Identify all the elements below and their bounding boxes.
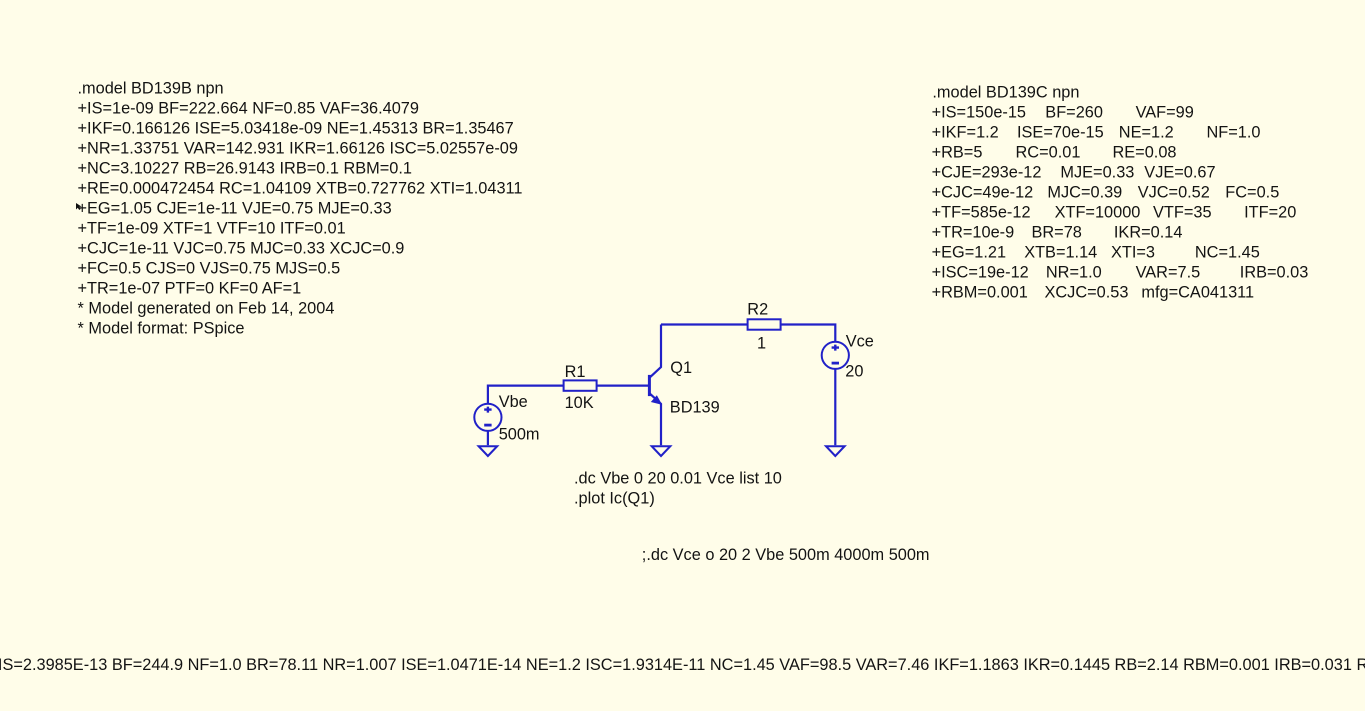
svg-text:+ISC=19e-12: +ISC=19e-12 bbox=[932, 264, 1029, 282]
svg-text:+NR=1.33751 VAR=142.931 IKR=1.: +NR=1.33751 VAR=142.931 IKR=1.66126 ISC=… bbox=[78, 140, 518, 158]
svg-text:10K: 10K bbox=[565, 394, 594, 412]
svg-text:* Model generated on Feb 14, 2: * Model generated on Feb 14, 2004 bbox=[78, 300, 335, 318]
svg-text:+IS=150e-15: +IS=150e-15 bbox=[932, 104, 1026, 122]
svg-text:NR=1.0: NR=1.0 bbox=[1046, 264, 1102, 282]
svg-text:VTF=35: VTF=35 bbox=[1153, 204, 1212, 222]
svg-text:+TF=585e-12: +TF=585e-12 bbox=[932, 204, 1031, 222]
wire: R2 right to Vce top bbox=[781, 325, 836, 342]
svg-text:IKR=0.14: IKR=0.14 bbox=[1114, 224, 1183, 242]
svg-text:20: 20 bbox=[845, 363, 863, 381]
svg-text:500m: 500m bbox=[499, 426, 540, 444]
resistor R1 bbox=[564, 380, 597, 390]
svg-text:NF=1.0: NF=1.0 bbox=[1207, 124, 1261, 142]
voltage source Vbe bbox=[474, 404, 501, 431]
svg-text:MJE=0.33: MJE=0.33 bbox=[1060, 164, 1134, 182]
svg-text:+TR=1e-07 PTF=0 KF=0 AF=1: +TR=1e-07 PTF=0 KF=0 AF=1 bbox=[78, 280, 302, 298]
spice directive .dc/.plot bbox=[574, 469, 782, 507]
svg-text:NE=1.2: NE=1.2 bbox=[1119, 124, 1174, 142]
svg-text:XTI=3: XTI=3 bbox=[1111, 244, 1155, 262]
svg-text:IS=2.3985E-13 BF=244.9 NF=1.0: IS=2.3985E-13 BF=244.9 NF=1.0 BR=78.11 N… bbox=[0, 656, 1365, 674]
svg-text:+FC=0.5 CJS=0 VJS=0.75 MJS=0.5: +FC=0.5 CJS=0 VJS=0.75 MJS=0.5 bbox=[78, 260, 341, 278]
svg-text:+IS=1e-09 BF=222.664 NF=0.85 V: +IS=1e-09 BF=222.664 NF=0.85 VAF=36.4079 bbox=[78, 100, 419, 118]
svg-text:;.dc Vce o 20 2 Vbe 500m 4000m: ;.dc Vce o 20 2 Vbe 500m 4000m 500m bbox=[642, 546, 930, 564]
svg-text:+IKF=1.2: +IKF=1.2 bbox=[932, 124, 999, 142]
svg-text:RC=0.01: RC=0.01 bbox=[1016, 144, 1081, 162]
svg-text:+CJE=293e-12: +CJE=293e-12 bbox=[932, 164, 1042, 182]
wire: Q1 collector to R2 left bbox=[661, 323, 748, 325]
svg-text:+CJC=49e-12: +CJC=49e-12 bbox=[932, 184, 1034, 202]
svg-text:+RE=0.000472454 RC=1.04109 XTB: +RE=0.000472454 RC=1.04109 XTB=0.727762 … bbox=[78, 180, 523, 198]
svg-text:NC=1.45: NC=1.45 bbox=[1195, 244, 1260, 262]
svg-text:.model BD139C npn: .model BD139C npn bbox=[932, 84, 1079, 102]
svg-text:+TF=1e-09 XTF=1 VTF=10 ITF=0.0: +TF=1e-09 XTF=1 VTF=10 ITF=0.01 bbox=[78, 220, 346, 238]
svg-text:ITF=20: ITF=20 bbox=[1244, 204, 1296, 222]
right .model BD139C text block bbox=[932, 84, 1309, 302]
voltage source Vce bbox=[822, 342, 849, 369]
svg-text:1: 1 bbox=[757, 334, 766, 352]
svg-text:ISE=70e-15: ISE=70e-15 bbox=[1017, 124, 1104, 142]
wire: R1 right to Q1 base bbox=[597, 385, 649, 387]
svg-text:+EG=1.21: +EG=1.21 bbox=[932, 244, 1006, 262]
svg-text:FC=0.5: FC=0.5 bbox=[1225, 184, 1279, 202]
svg-text:MJC=0.39: MJC=0.39 bbox=[1047, 184, 1122, 202]
bottom model parameter line bbox=[0, 656, 1365, 674]
svg-text:+NC=3.10227 RB=26.9143 IRB=0.1: +NC=3.10227 RB=26.9143 IRB=0.1 RBM=0.1 bbox=[78, 160, 413, 178]
svg-text:+RBM=0.001: +RBM=0.001 bbox=[932, 284, 1028, 302]
left .model BD139B text block bbox=[78, 80, 523, 338]
svg-text:BD139: BD139 bbox=[670, 399, 720, 417]
ground: Vce negative bbox=[826, 446, 845, 456]
svg-text:.model BD139B npn: .model BD139B npn bbox=[78, 80, 224, 98]
wire: Vbe bottom to ground bbox=[487, 431, 489, 445]
svg-text:Q1: Q1 bbox=[670, 359, 692, 377]
svg-text:IRB=0.03: IRB=0.03 bbox=[1240, 264, 1309, 282]
svg-text:+EG=1.05 CJE=1e-11 VJE=0.75 MJ: +EG=1.05 CJE=1e-11 VJE=0.75 MJE=0.33 bbox=[78, 200, 392, 218]
svg-text:+CJC=1e-11 VJC=0.75 MJC=0.33 X: +CJC=1e-11 VJC=0.75 MJC=0.33 XCJC=0.9 bbox=[78, 240, 405, 258]
svg-text:VAF=99: VAF=99 bbox=[1136, 104, 1194, 122]
svg-text:+RB=5: +RB=5 bbox=[932, 144, 983, 162]
wire: Vbe top to R1 left (base net) bbox=[488, 386, 564, 404]
svg-text:Vbe: Vbe bbox=[499, 393, 528, 411]
svg-text:XTF=10000: XTF=10000 bbox=[1055, 204, 1141, 222]
svg-text:mfg=CA041311: mfg=CA041311 bbox=[1141, 284, 1254, 302]
svg-text:Vce: Vce bbox=[846, 333, 874, 351]
svg-text:* Model format: PSpice: * Model format: PSpice bbox=[78, 320, 245, 338]
svg-text:R2: R2 bbox=[747, 300, 768, 318]
svg-text:BR=78: BR=78 bbox=[1032, 224, 1082, 242]
svg-text:VJE=0.67: VJE=0.67 bbox=[1144, 164, 1215, 182]
svg-text:VAR=7.5: VAR=7.5 bbox=[1136, 264, 1201, 282]
svg-text:+IKF=0.166126 ISE=5.03418e-09: +IKF=0.166126 ISE=5.03418e-09 NE=1.45313… bbox=[78, 120, 514, 138]
ground: Q1 emitter bbox=[652, 446, 671, 456]
svg-text:BF=260: BF=260 bbox=[1045, 104, 1103, 122]
svg-text:XCJC=0.53: XCJC=0.53 bbox=[1045, 284, 1129, 302]
svg-text:.dc Vbe 0 20 0.01 Vce list 10: .dc Vbe 0 20 0.01 Vce list 10 bbox=[574, 469, 782, 487]
svg-text:RE=0.08: RE=0.08 bbox=[1113, 144, 1177, 162]
svg-text:.plot Ic(Q1): .plot Ic(Q1) bbox=[574, 489, 655, 507]
ground: Vbe negative bbox=[479, 446, 498, 456]
svg-text:+TR=10e-9: +TR=10e-9 bbox=[932, 224, 1015, 242]
svg-text:R1: R1 bbox=[565, 363, 586, 381]
wire: Vce bottom to ground bbox=[834, 369, 836, 446]
transistor Q1 (NPN BD139) bbox=[649, 325, 661, 446]
resistor R2 bbox=[748, 319, 781, 329]
svg-text:XTB=1.14: XTB=1.14 bbox=[1024, 244, 1097, 262]
svg-text:VJC=0.52: VJC=0.52 bbox=[1138, 184, 1210, 202]
mouse cursor bbox=[76, 203, 82, 210]
